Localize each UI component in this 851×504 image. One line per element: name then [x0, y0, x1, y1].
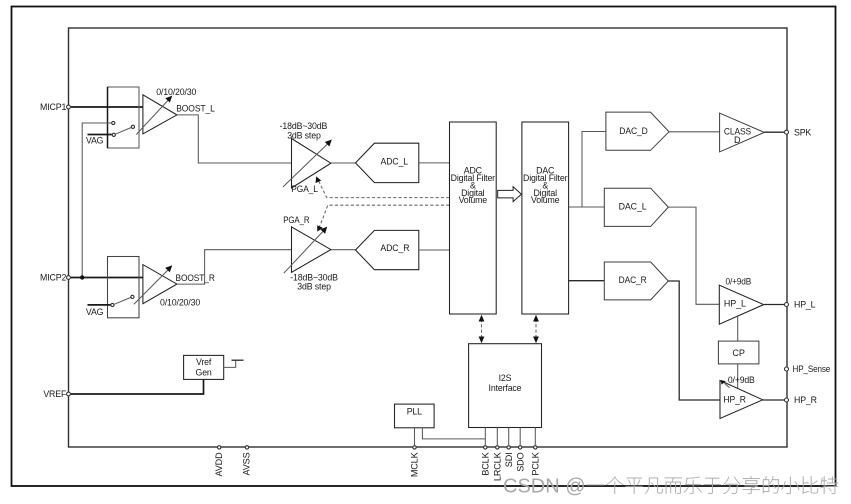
switch S1 blade [115, 128, 131, 135]
svg-text:PGA_L: PGA_L [291, 184, 318, 194]
svg-text:BOOST_R: BOOST_R [176, 273, 216, 283]
svg-text:D: D [734, 135, 741, 145]
switch box S1 [108, 87, 140, 148]
svg-text:DAC_L: DAC_L [619, 201, 647, 211]
svg-text:VREF: VREF [43, 389, 67, 399]
pin LRCLK [496, 446, 499, 449]
block DAC_L [604, 188, 668, 226]
pin BCLK [484, 446, 487, 449]
pin VREF [67, 392, 71, 396]
wire PLL to BCLK net [422, 428, 485, 439]
BOOST_R gain arrow [134, 269, 169, 304]
wire DAC_D to CLASS D [669, 131, 720, 133]
pin SDO [519, 446, 522, 449]
op-amp PGA_L [292, 139, 331, 189]
svg-text:VAG: VAG [86, 307, 104, 317]
wire CP to HP_R [737, 364, 739, 389]
wire BOOST_L out to PGA_L [177, 115, 292, 163]
wire MICP2 input [71, 277, 143, 279]
svg-text:DAC_D: DAC_D [619, 126, 648, 136]
chip boundary box [69, 28, 788, 447]
wire DAC_L to HP_L [668, 207, 719, 304]
wire I2S to LRCLK pin [496, 428, 498, 446]
svg-text:MICP2: MICP2 [40, 273, 66, 283]
wire VAG stub R [88, 304, 111, 306]
PGA_L gain arrow [283, 144, 328, 187]
svg-text:ADC_L: ADC_L [381, 157, 409, 167]
wire DAC filter to DAC_L [569, 206, 605, 208]
pin HP_R [785, 398, 789, 402]
svg-text:LRCLK: LRCLK [493, 452, 503, 481]
pin HP_L [785, 303, 789, 307]
BOOST_L gain arrow [136, 100, 168, 135]
switch S2 blade [114, 298, 130, 305]
svg-text:CSDN @: CSDN @ [503, 476, 586, 498]
dashed AGC control to PGA_L [318, 180, 449, 198]
svg-text:AVDD: AVDD [214, 452, 224, 477]
svg-text:3dB step: 3dB step [287, 130, 321, 140]
pin SPK [785, 130, 789, 134]
svg-text:CP: CP [732, 348, 744, 358]
op-amp BOOST_L [143, 95, 177, 134]
svg-text:SDI: SDI [504, 453, 514, 468]
wire HP_L to CP [737, 316, 739, 341]
svg-text:Gen: Gen [196, 367, 212, 377]
svg-text:0/+9dB: 0/+9dB [728, 375, 755, 385]
wire ADC_R to ADC filter [419, 249, 450, 251]
wire PLL to MCLK pin [414, 428, 416, 445]
svg-text:0/10/20/30: 0/10/20/30 [156, 87, 196, 97]
wire I2S to SDI pin [508, 428, 510, 446]
external cap symbol [224, 360, 236, 367]
svg-text:PLL: PLL [407, 407, 422, 417]
svg-text:SPK: SPK [794, 127, 811, 137]
block arrow ADC to DAC [498, 187, 522, 202]
svg-text:HP_R: HP_R [794, 395, 817, 405]
svg-text:BOOST_L: BOOST_L [176, 104, 215, 114]
dashed AGC control to PGA_R [319, 205, 449, 228]
block I2S interface [469, 344, 542, 428]
wire switch S1 common to MICP2 rail [82, 123, 111, 278]
block CP [718, 341, 759, 364]
pin MCLK [413, 446, 416, 449]
pin AVDD [218, 446, 221, 449]
op-amp CLASS D [720, 113, 765, 152]
PGA_R gain arrow [284, 231, 324, 274]
wire BOOST_R out to PGA_R [177, 250, 292, 284]
op-amp BOOST_R [143, 265, 177, 304]
svg-text:0/10/20/30: 0/10/20/30 [160, 297, 200, 307]
HP_R gain arrow [725, 383, 730, 387]
op-amp HP_L [719, 285, 763, 324]
block PLL [395, 404, 435, 428]
svg-text:MCLK: MCLK [410, 452, 420, 477]
svg-text:VAG: VAG [86, 136, 104, 146]
svg-text:HP_Sense: HP_Sense [793, 364, 831, 374]
svg-text:DAC_R: DAC_R [619, 275, 647, 285]
svg-text:BCLK: BCLK [481, 452, 491, 475]
svg-text:AVSS: AVSS [241, 452, 251, 475]
wire branch to DAC_D [582, 132, 606, 208]
wire I2S to BCLK pin [484, 428, 486, 446]
svg-text:Interface: Interface [489, 383, 522, 393]
switch S2 contacts [111, 303, 114, 306]
pin MICP1 [67, 105, 71, 109]
junction MICP2 rail [80, 275, 84, 279]
svg-text:3dB step: 3dB step [297, 282, 331, 292]
wire VAG stub L [88, 134, 112, 136]
wire DAC_R to HP_R [668, 281, 720, 400]
wire I2S to SDO pin [519, 428, 521, 446]
svg-text:PGA_R: PGA_R [283, 215, 310, 225]
dashed bus DAC to I2S [535, 319, 537, 339]
wire HP_L to HP_L pin [764, 304, 785, 306]
wire CLASS D to SPK [764, 131, 784, 133]
svg-text:HP_R: HP_R [723, 395, 746, 405]
svg-text:0/+9dB: 0/+9dB [726, 276, 752, 286]
wire MICP1 input [71, 106, 143, 108]
pin SDI [507, 446, 510, 449]
block DAC_R [604, 262, 668, 300]
wire VREF to Vref Gen [71, 380, 204, 395]
switch box S2 [108, 257, 140, 318]
block DAC_D [606, 112, 669, 150]
wire HP_R to HP_R pin [763, 399, 785, 401]
wire PGA_L to ADC_L [331, 162, 356, 164]
svg-text:Vref: Vref [196, 357, 212, 367]
svg-text:MICP1: MICP1 [40, 102, 66, 112]
svg-text:I2S: I2S [499, 373, 512, 383]
dashed bus ADC to I2S [481, 319, 483, 339]
wire PGA_R to ADC_R [331, 249, 356, 251]
op-amp HP_R [720, 380, 763, 418]
op-amp PGA_R [292, 227, 331, 272]
pin MICP2 [67, 276, 71, 280]
block ADC_L [356, 143, 419, 182]
svg-text:PCLK: PCLK [531, 452, 541, 475]
pin AVSS [245, 446, 248, 449]
svg-text:HP_L: HP_L [724, 299, 746, 309]
svg-text:ADC_R: ADC_R [380, 243, 410, 253]
svg-text:HP_L: HP_L [794, 300, 816, 310]
svg-text:Volume: Volume [531, 195, 560, 205]
block ADC digital filter [450, 122, 497, 314]
wire I2S to PCLK pin [534, 428, 536, 446]
block ADC_R [356, 230, 419, 269]
pin PCLK [534, 446, 537, 449]
switch S1 contacts [112, 121, 115, 124]
svg-text:SDO: SDO [515, 452, 525, 471]
block Vref Gen [184, 355, 224, 379]
pin HP_Sense [785, 367, 789, 371]
wire DAC filter to DAC_R [569, 280, 605, 282]
svg-text:Volume: Volume [459, 195, 488, 205]
wire ADC_L to ADC filter [419, 162, 450, 164]
block DAC digital filter [522, 122, 569, 314]
